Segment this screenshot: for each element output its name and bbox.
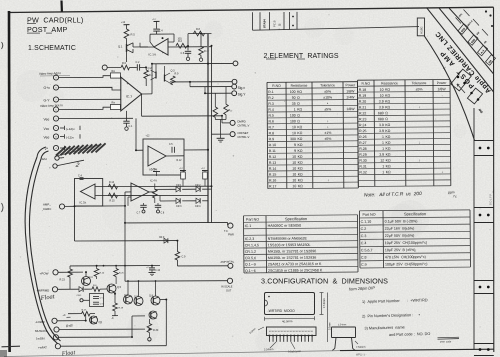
svg-text:Q.1∼9: Q.1∼9 — [245, 263, 256, 267]
svg-text:HA5050C or SE5050: HA5050C or SE5050 — [268, 224, 302, 228]
svg-text:0.5±0.1mm: 0.5±0.1mm — [288, 349, 301, 353]
svg-text:R.24: R.24 — [359, 123, 366, 127]
svg-text:PC.B: PC.B — [273, 20, 277, 27]
svg-text:1.SCHEMATIC: 1.SCHEMATIC — [28, 45, 76, 52]
svg-text:KΩ: KΩ — [298, 155, 303, 159]
svg-text:R.25: R.25 — [119, 273, 124, 275]
svg-text:35: 35 — [292, 102, 296, 106]
svg-text:1wSIN: 1wSIN — [36, 337, 45, 341]
svg-text:10: 10 — [380, 94, 384, 98]
svg-text:1/8W: 1/8W — [437, 87, 446, 91]
svg-text:±5%: ±5% — [324, 137, 331, 141]
svg-text:R.5: R.5 — [131, 33, 136, 37]
svg-text:R.10: R.10 — [269, 143, 276, 147]
svg-text:KΩ: KΩ — [298, 172, 303, 176]
svg-text:KΩ: KΩ — [385, 99, 390, 103]
svg-text:+C: +C — [63, 314, 66, 317]
svg-text:Part NO: Part NO — [246, 218, 259, 222]
svg-text:Resistance: Resistance — [381, 81, 398, 85]
svg-text:IN SCALE: IN SCALE — [221, 286, 233, 289]
svg-text:R.8: R.8 — [196, 28, 201, 31]
svg-text:+: + — [127, 82, 129, 86]
svg-text:KΩ: KΩ — [298, 167, 303, 171]
svg-text:100μF 25V CH(50ppm/°c): 100μF 25V CH(50ppm/°c) — [385, 262, 428, 266]
svg-text:KΩ: KΩ — [385, 105, 390, 109]
svg-text:3.9: 3.9 — [379, 99, 384, 103]
svg-text:KΩ: KΩ — [298, 149, 303, 153]
svg-text:R.12: R.12 — [269, 155, 276, 159]
svg-text:+POW: +POW — [40, 272, 49, 276]
svg-text:R.6: R.6 — [122, 62, 127, 65]
svg-text:4: 4 — [55, 148, 56, 150]
svg-text:Rₚₚ: Rₚₚ — [229, 109, 233, 112]
svg-text:KΩ: KΩ — [386, 164, 391, 168]
svg-text:CR.2: CR.2 — [195, 184, 201, 187]
svg-text:Tolerance: Tolerance — [412, 81, 427, 85]
svg-text:year code: year code — [440, 341, 452, 344]
svg-text:H18G: H18G — [419, 26, 423, 34]
svg-text:C.2: C.2 — [136, 61, 141, 64]
svg-text:8TA84: 8TA84 — [263, 19, 267, 28]
svg-text:2.54mm: 2.54mm — [338, 324, 346, 326]
svg-text:12: 12 — [380, 158, 384, 162]
svg-text:WPL(−)···: WPL(−)··· — [356, 354, 367, 357]
svg-text:Q.4: Q.4 — [89, 276, 94, 279]
svg-text:Sig.Y: Sig.Y — [238, 93, 247, 97]
svg-text:-LOWR: -LOWR — [35, 320, 45, 324]
svg-text:3.CONFIGURATION & DIMENSIONS: 3.CONFIGURATION & DIMENSIONS — [261, 277, 388, 286]
svg-text:Ω: Ω — [297, 96, 300, 100]
svg-text:9: 9 — [55, 78, 56, 80]
svg-text:Float: Float — [60, 349, 75, 357]
svg-text:R.29: R.29 — [119, 308, 124, 310]
svg-text:(+12)v: (+12)v — [66, 127, 75, 131]
svg-text:IC.1: IC.1 — [245, 224, 252, 228]
svg-text:T.C: T.C — [224, 230, 228, 233]
svg-text:R.25: R.25 — [359, 129, 366, 133]
svg-text:−: − — [127, 104, 129, 108]
svg-text:R.30: R.30 — [359, 159, 366, 163]
svg-text:1: 1 — [382, 164, 384, 168]
svg-text:Sig.x: Sig.x — [238, 86, 246, 90]
svg-text:±5%: ±5% — [324, 90, 331, 94]
svg-text:IC.1: IC.1 — [126, 94, 132, 98]
svg-text:C.1: C.1 — [129, 125, 134, 128]
svg-text:10: 10 — [292, 155, 296, 159]
svg-text:MUSCIN: MUSCIN — [35, 329, 46, 333]
svg-text:1: 1 — [55, 119, 56, 121]
svg-text:(Q): (Q) — [99, 321, 103, 324]
svg-text:100: 100 — [290, 113, 296, 117]
svg-text:C.9: C.9 — [182, 256, 187, 259]
svg-text:100: 100 — [290, 90, 296, 94]
svg-text:KΩ: KΩ — [386, 153, 391, 157]
svg-text:R.4: R.4 — [149, 74, 154, 77]
svg-text:IC.1½: IC.1½ — [148, 52, 156, 56]
svg-text:Ω: Ω — [297, 102, 300, 106]
svg-text:±5%: ±5% — [324, 107, 331, 111]
svg-text:Specification: Specification — [285, 216, 307, 221]
svg-text:CR.1: CR.1 — [176, 184, 182, 187]
svg-text:300: 300 — [290, 137, 296, 141]
svg-text:R.8: R.8 — [269, 131, 275, 135]
svg-text:1SS103 or 1S953 MA150L: 1SS103 or 1S953 MA150L — [268, 243, 311, 247]
svg-text:C.4: C.4 — [78, 175, 83, 178]
svg-text:↓: ↓ — [419, 140, 421, 144]
svg-text:R.7: R.7 — [269, 125, 275, 129]
svg-text:5: 5 — [55, 128, 56, 130]
svg-text:+12: +12 — [121, 21, 126, 24]
svg-text:3.9: 3.9 — [379, 123, 384, 127]
svg-text:1: 1 — [382, 170, 384, 174]
svg-text:+WFRMD: +WFRMD — [37, 289, 50, 293]
svg-text:KΩ: KΩ — [385, 88, 390, 92]
svg-text:1/8W: 1/8W — [346, 89, 355, 93]
svg-text:MA150L or 1S2781 or 1S2896: MA150L or 1S2781 or 1S2896 — [268, 249, 316, 253]
svg-text:R.12: R.12 — [177, 160, 183, 162]
svg-text:-C: -C — [111, 317, 114, 320]
svg-text:Tolerance: Tolerance — [320, 83, 335, 87]
svg-text:AMP_: AMP_ — [43, 202, 51, 206]
svg-text:C.6: C.6 — [181, 52, 185, 55]
svg-text:R.28: R.28 — [359, 147, 366, 151]
svg-text:R.1: R.1 — [268, 90, 274, 94]
svg-text:Ω: Ω — [297, 119, 300, 123]
svg-text:KΩ: KΩ — [297, 125, 302, 129]
svg-text:10: 10 — [292, 161, 296, 165]
svg-text:R.29: R.29 — [359, 153, 366, 157]
svg-text:KΩ: KΩ — [298, 178, 303, 182]
svg-text:Q.1: Q.1 — [118, 45, 123, 49]
svg-text:PW CARD(RLL): PW CARD(RLL) — [27, 16, 84, 25]
svg-text:1: 1 — [382, 135, 384, 139]
svg-text:↓: ↓ — [327, 119, 329, 123]
svg-text:R.26: R.26 — [359, 135, 366, 139]
svg-text:10: 10 — [292, 125, 296, 129]
svg-text:9: 9 — [294, 143, 296, 147]
svg-text:CNTRL.V: CNTRL.V — [237, 135, 249, 139]
svg-text:MA150L or 1S2781 or 1S2936: MA150L or 1S2781 or 1S2936 — [268, 256, 316, 260]
svg-text:Power: Power — [345, 83, 356, 87]
svg-text:R×B: R×B — [66, 324, 74, 329]
svg-text:R.32: R.32 — [359, 170, 366, 174]
svg-text:KΩ: KΩ — [385, 94, 390, 98]
svg-text:C.8: C.8 — [161, 212, 165, 215]
svg-text:R.13: R.13 — [269, 161, 276, 165]
svg-text:(+5)v: (+5)v — [151, 168, 157, 171]
svg-text:10: 10 — [292, 167, 296, 171]
svg-text:9: 9 — [294, 149, 296, 153]
svg-text:6: 6 — [55, 110, 56, 112]
svg-text:KΩ: KΩ — [386, 170, 391, 174]
svg-text:KΩ: KΩ — [385, 135, 390, 139]
svg-text:CR.1,4,5: CR.1,4,5 — [245, 243, 259, 247]
svg-text:R.NO: R.NO — [272, 84, 281, 88]
svg-text:B D L F P: B D L F P — [489, 194, 493, 205]
svg-text:R.9: R.9 — [269, 137, 275, 141]
svg-text:10: 10 — [292, 184, 296, 188]
svg-text:2SA911 or A733 or 2SA1015 or K: 2SA911 or A733 or 2SA1015 or K — [268, 262, 322, 266]
svg-text:40.0mm: 40.0mm — [282, 319, 293, 323]
svg-text:R.17: R.17 — [269, 184, 276, 188]
svg-text:KΩ: KΩ — [385, 123, 390, 127]
svg-text:CR.4: CR.4 — [195, 205, 201, 208]
svg-text:KΩ: KΩ — [386, 147, 391, 151]
svg-text:PWR: PWR — [228, 233, 234, 236]
svg-text:徒: 徒 — [278, 23, 282, 26]
svg-text:R.11: R.11 — [269, 149, 276, 153]
svg-text:R.14: R.14 — [269, 167, 276, 171]
svg-text:1/4W: 1/4W — [346, 95, 355, 99]
svg-text:R.31: R.31 — [359, 165, 366, 169]
svg-text:10: 10 — [292, 131, 296, 135]
svg-text:R.19: R.19 — [359, 94, 366, 98]
svg-text:C.9: C.9 — [361, 263, 367, 267]
svg-text:3.9: 3.9 — [379, 129, 384, 133]
svg-text:3.9: 3.9 — [379, 153, 384, 157]
svg-text:R.3: R.3 — [268, 102, 274, 106]
svg-text:Ω: Ω — [297, 113, 300, 117]
svg-text:CR.9: CR.9 — [159, 237, 165, 239]
svg-text:↓: ↓ — [327, 178, 329, 182]
svg-text:Part NO: Part NO — [363, 213, 376, 217]
svg-text:Vee: Vee — [44, 136, 50, 140]
svg-text:1: 1 — [382, 141, 384, 145]
svg-text:IC.2,3: IC.2,3 — [245, 237, 255, 241]
svg-text:G-Y: G-Y — [44, 98, 51, 102]
svg-text:680: 680 — [378, 117, 384, 121]
svg-text:R.5: R.5 — [268, 114, 274, 118]
svg-text:AMP/WTRL: AMP/WTRL — [220, 260, 234, 264]
svg-text:±1%: ±1% — [324, 131, 331, 135]
svg-text:R.14: R.14 — [109, 181, 115, 184]
svg-text:R.6: R.6 — [268, 120, 274, 124]
svg-text:1/8W: 1/8W — [346, 107, 355, 111]
svg-text:17.0mm: 17.0mm — [322, 298, 326, 308]
svg-text:12H: 12H — [42, 157, 47, 161]
svg-text:+C: +C — [146, 267, 149, 269]
svg-text:680: 680 — [378, 111, 384, 115]
svg-text:10: 10 — [292, 172, 296, 176]
svg-text:Q.5: Q.5 — [117, 286, 122, 289]
svg-text:R.20: R.20 — [359, 100, 366, 104]
svg-text:/°c: /°c — [452, 194, 457, 198]
svg-text:C.1,10: C.1,10 — [361, 220, 372, 224]
svg-text:Vcc: Vcc — [44, 127, 50, 131]
svg-text:KΩ: KΩ — [298, 184, 303, 188]
svg-text:IC.2a: IC.2a — [79, 200, 86, 204]
svg-text:OUT: OUT — [226, 289, 232, 292]
svg-text:R.16: R.16 — [269, 179, 276, 183]
svg-text:↓: ↓ — [419, 158, 421, 162]
svg-text:R.21: R.21 — [359, 106, 366, 110]
svg-text:Ω: Ω — [385, 111, 388, 115]
svg-text:R.27: R.27 — [359, 141, 366, 145]
svg-text:POST AMP: POST AMP — [27, 25, 68, 34]
svg-text:KΩ: KΩ — [298, 161, 303, 165]
svg-text:R.NO: R.NO — [362, 82, 371, 86]
svg-text:100: 100 — [290, 119, 296, 123]
svg-text:C.4: C.4 — [159, 30, 164, 33]
svg-text:7.62mm: 7.62mm — [356, 345, 366, 349]
svg-text:10: 10 — [292, 178, 296, 182]
svg-text:CR.1: CR.1 — [77, 295, 83, 297]
svg-text:R.2: R.2 — [268, 96, 274, 100]
svg-text:R.9: R.9 — [175, 73, 180, 76]
svg-text:3.9: 3.9 — [379, 105, 384, 109]
svg-text:Vee: Vee — [44, 117, 50, 121]
svg-text:R.24: R.24 — [100, 273, 105, 275]
svg-text:R.18: R.18 — [359, 88, 366, 92]
svg-text:R.2: R.2 — [178, 40, 183, 43]
svg-text:↓: ↓ — [327, 125, 329, 129]
svg-text:R.27: R.27 — [82, 309, 87, 311]
svg-text:CR.3: CR.3 — [176, 205, 182, 208]
svg-text:KΩ: KΩ — [386, 158, 391, 162]
svg-text:KΩ: KΩ — [297, 90, 302, 94]
svg-text:1: 1 — [294, 108, 296, 112]
svg-text:2SC1815 or C1885 or 2SC2458 K: 2SC1815 or C1885 or 2SC2458 K — [268, 268, 323, 272]
svg-text:CNTRL.V: CNTRL.V — [237, 124, 249, 128]
svg-text:R.23: R.23 — [359, 117, 366, 121]
svg-text:Power: Power — [437, 81, 448, 85]
svg-text:R.23: R.23 — [60, 279, 66, 282]
svg-text:10: 10 — [380, 88, 384, 92]
svg-text:CHRC: CHRC — [43, 207, 51, 211]
svg-text:↓: ↓ — [418, 105, 420, 109]
svg-text:KΩ: KΩ — [385, 141, 390, 145]
svg-text:↓: ↓ — [441, 170, 443, 174]
svg-text:NTM4559M or AN6562E: NTM4559M or AN6562E — [268, 237, 308, 241]
svg-text:KΩ: KΩ — [385, 129, 390, 133]
svg-text:(-12)v: (-12)v — [66, 136, 74, 140]
svg-text:KΩ: KΩ — [297, 108, 302, 112]
svg-text:R.22: R.22 — [359, 111, 366, 115]
svg-text:Q.2: Q.2 — [148, 67, 153, 70]
svg-text:IC.4½: IC.4½ — [150, 178, 158, 182]
svg-text:C.10: C.10 — [155, 269, 161, 272]
svg-text:CR.1,2: CR.1,2 — [245, 250, 256, 254]
svg-text:-WRT/RD MOOO: -WRT/RD MOOO — [268, 309, 296, 313]
svg-text:R.4: R.4 — [268, 108, 274, 112]
svg-text:Q.1∼6: Q.1∼6 — [245, 269, 256, 273]
svg-text:+wFAT: +wFAT — [38, 346, 47, 350]
svg-text:Ω: Ω — [385, 117, 388, 121]
svg-text:50: 50 — [292, 96, 296, 100]
svg-text:CR.5,6: CR.5,6 — [245, 256, 256, 260]
svg-text:±10%: ±10% — [323, 95, 332, 99]
svg-text:Resistance: Resistance — [291, 84, 308, 88]
svg-text:±5%: ±5% — [416, 87, 423, 91]
svg-text:R.15: R.15 — [269, 173, 276, 177]
svg-text:1: 1 — [382, 147, 384, 151]
svg-text:Q.8: Q.8 — [149, 295, 154, 298]
